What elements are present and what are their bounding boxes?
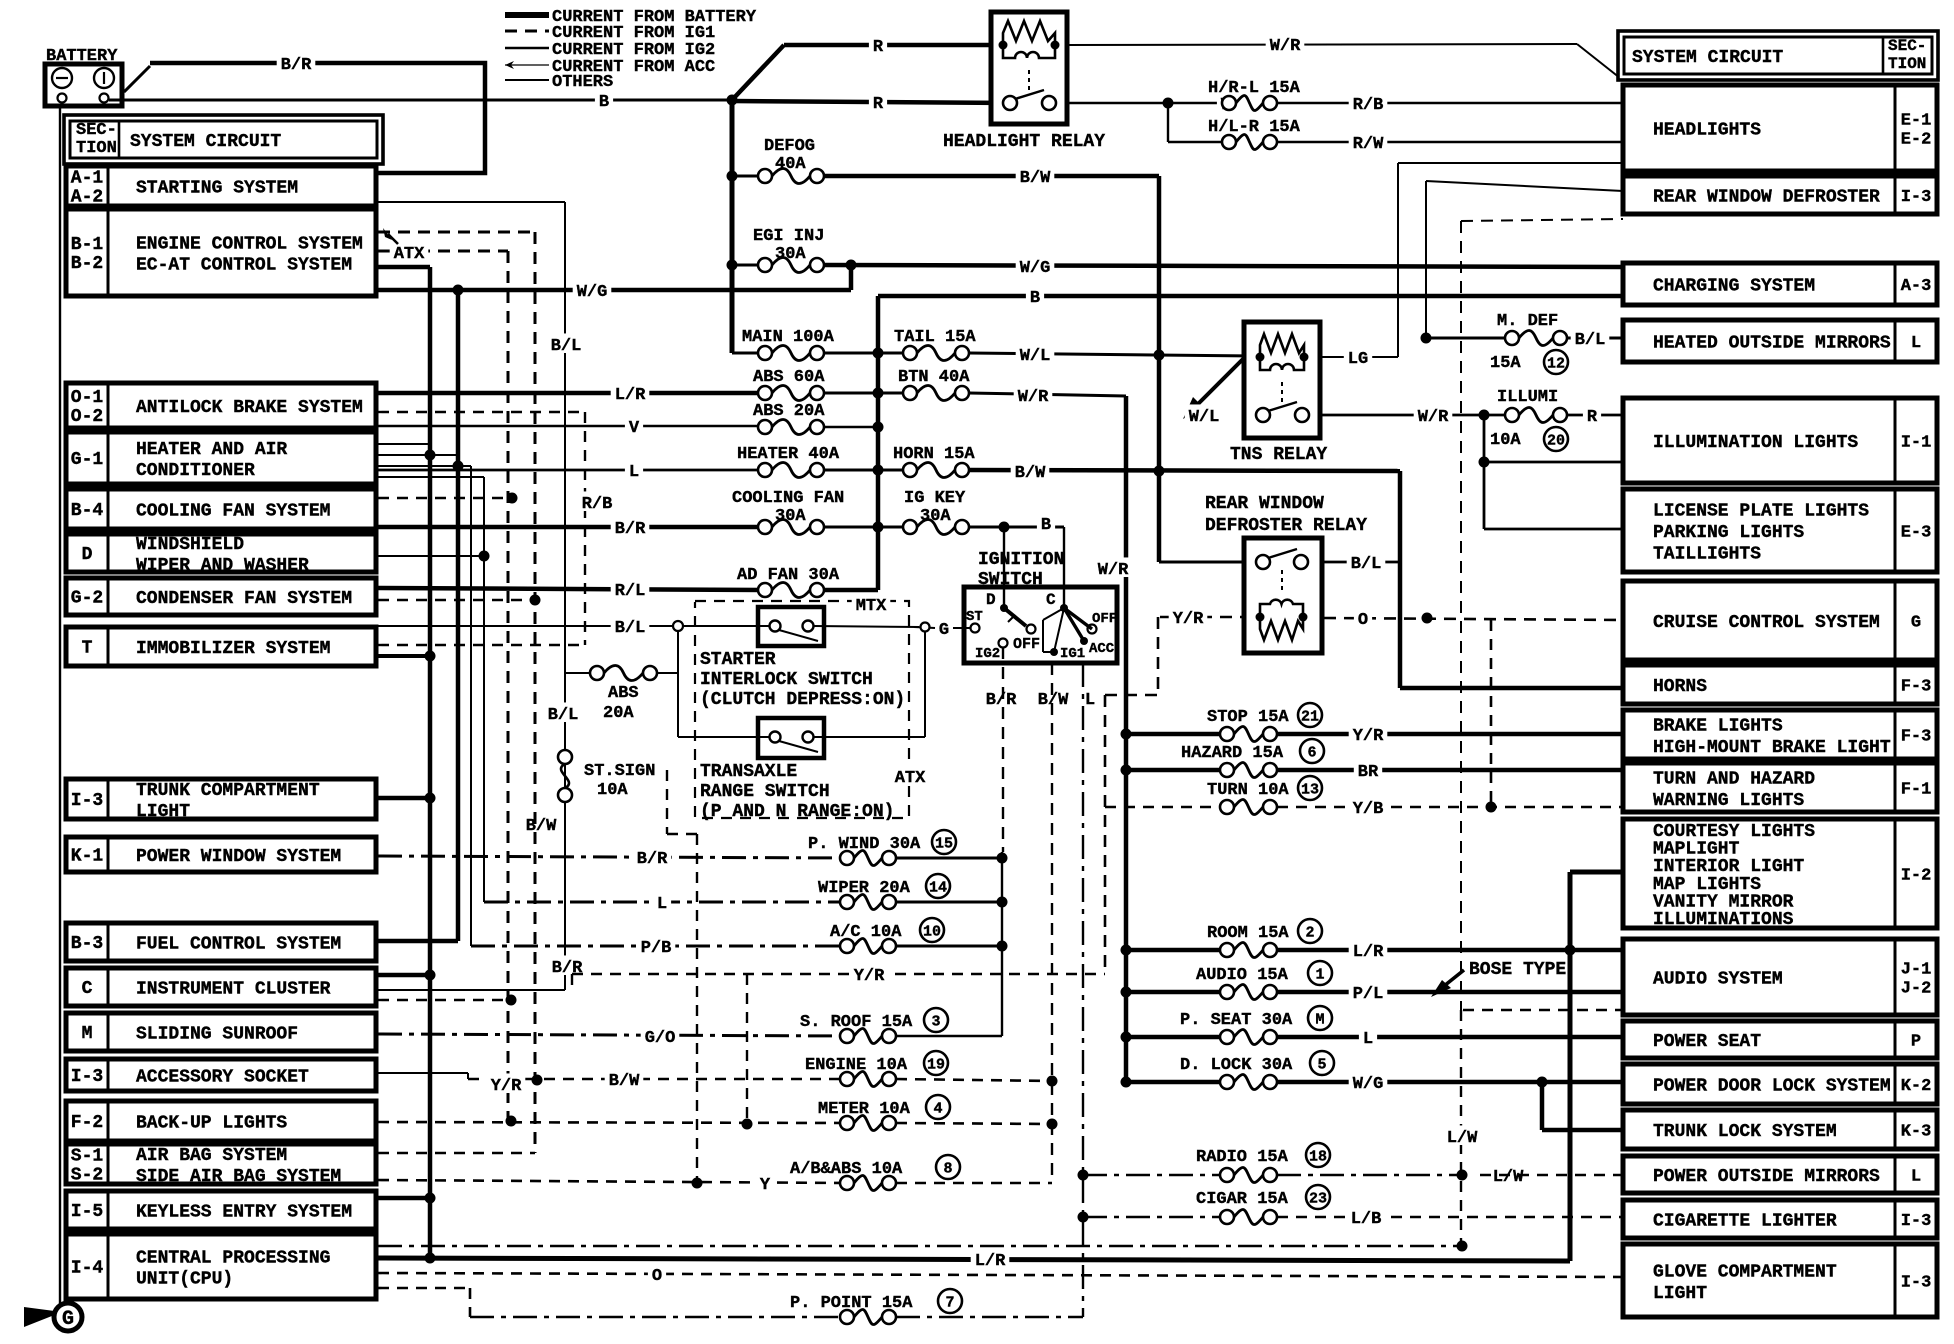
svg-text:B/L: B/L [548,706,579,725]
svg-text:ABS 20A: ABS 20A [753,402,825,421]
svg-text:L/R: L/R [615,386,646,405]
svg-text:WINDSHIELD: WINDSHIELD [136,535,244,555]
svg-text:REAR WINDOW: REAR WINDOW [1205,494,1324,514]
svg-text:15A: 15A [1490,354,1521,373]
svg-text:B/L: B/L [551,337,582,356]
svg-text:KEYLESS ENTRY SYSTEM: KEYLESS ENTRY SYSTEM [136,1203,352,1223]
svg-text:L/W: L/W [1493,1168,1524,1187]
svg-text:IGNITION: IGNITION [978,550,1064,570]
svg-text:SYSTEM CIRCUIT: SYSTEM CIRCUIT [1632,48,1783,68]
svg-text:BRAKE LIGHTS: BRAKE LIGHTS [1653,716,1783,736]
svg-text:ST: ST [966,609,983,625]
svg-text:ACCESSORY SOCKET: ACCESSORY SOCKET [136,1068,309,1088]
svg-text:Y: Y [760,1176,771,1195]
svg-text:OFF: OFF [1013,636,1040,653]
svg-text:P/B: P/B [641,939,672,958]
svg-text:L/W: L/W [1447,1129,1478,1148]
svg-text:B/R: B/R [552,959,583,978]
svg-text:AUDIO 15A: AUDIO 15A [1196,966,1289,985]
svg-text:ACC: ACC [1089,641,1115,657]
svg-text:UNIT(CPU): UNIT(CPU) [136,1270,233,1290]
svg-text:TION: TION [76,139,117,158]
svg-text:P/L: P/L [1353,985,1384,1004]
svg-text:14: 14 [929,880,947,897]
svg-text:30A: 30A [775,245,806,264]
svg-text:W/R: W/R [1018,388,1049,407]
svg-text:M. DEF: M. DEF [1497,312,1558,331]
svg-text:CONDENSER FAN SYSTEM: CONDENSER FAN SYSTEM [136,589,352,609]
svg-text:TRUNK LOCK SYSTEM: TRUNK LOCK SYSTEM [1653,1122,1837,1142]
svg-text:POWER OUTSIDE MIRRORS: POWER OUTSIDE MIRRORS [1653,1167,1880,1187]
svg-text:19: 19 [927,1057,945,1074]
svg-text:4: 4 [933,1101,942,1118]
svg-text:B/L: B/L [615,619,646,638]
svg-text:IG2: IG2 [975,646,1000,662]
svg-text:K-1: K-1 [71,847,104,867]
svg-text:TRANSAXLE: TRANSAXLE [700,762,797,782]
svg-text:INTERLOCK SWITCH: INTERLOCK SWITCH [700,670,873,690]
svg-text:CIGARETTE LIGHTER: CIGARETTE LIGHTER [1653,1212,1837,1232]
svg-text:3: 3 [931,1014,940,1031]
svg-text:G/O: G/O [645,1029,676,1048]
svg-text:D. LOCK 30A: D. LOCK 30A [1180,1056,1293,1075]
svg-text:G-2: G-2 [71,589,103,609]
svg-text:PARKING LIGHTS: PARKING LIGHTS [1653,523,1804,543]
svg-text:IG1: IG1 [1060,646,1085,662]
svg-text:O-2: O-2 [71,407,103,427]
svg-text:WIPER AND WASHER: WIPER AND WASHER [136,556,309,576]
svg-text:ABS: ABS [608,684,639,703]
svg-text:5: 5 [1317,1057,1326,1074]
svg-text:C: C [82,979,93,999]
svg-text:COOLING FAN SYSTEM: COOLING FAN SYSTEM [136,502,330,522]
svg-text:L: L [1363,1030,1373,1049]
svg-text:T: T [82,639,93,659]
svg-text:ILLUMI: ILLUMI [1497,388,1558,407]
svg-text:P. SEAT 30A: P. SEAT 30A [1180,1011,1293,1030]
svg-text:SEC-: SEC- [1888,37,1926,55]
svg-text:G: G [62,1308,74,1331]
svg-text:O: O [1358,611,1368,630]
svg-text:A-2: A-2 [71,188,103,208]
svg-text:W/R: W/R [1418,408,1449,427]
svg-text:G: G [939,621,949,640]
svg-text:20A: 20A [603,704,634,723]
svg-text:40A: 40A [775,155,806,174]
svg-text:A-3: A-3 [1901,277,1932,296]
svg-text:OTHERS: OTHERS [552,73,613,92]
svg-text:COOLING FAN: COOLING FAN [732,489,844,508]
svg-text:IMMOBILIZER SYSTEM: IMMOBILIZER SYSTEM [136,639,330,659]
svg-text:CRUISE CONTROL SYSTEM: CRUISE CONTROL SYSTEM [1653,613,1880,633]
svg-text:H/R-L 15A: H/R-L 15A [1208,79,1301,98]
svg-text:G: G [1911,614,1921,633]
svg-text:B/W: B/W [609,1072,640,1091]
svg-text:12: 12 [1547,356,1565,373]
svg-text:B-4: B-4 [71,501,104,521]
svg-text:L: L [629,463,639,482]
svg-text:HEATER AND AIR: HEATER AND AIR [136,440,287,460]
svg-text:I-3: I-3 [71,791,103,811]
svg-text:B/W: B/W [526,817,557,836]
svg-text:HAZARD 15A: HAZARD 15A [1181,744,1284,763]
svg-text:I-1: I-1 [1901,434,1932,453]
svg-text:20: 20 [1547,433,1565,450]
svg-text:POWER SEAT: POWER SEAT [1653,1032,1761,1052]
svg-text:ATX: ATX [895,769,926,788]
svg-text:H/L-R 15A: H/L-R 15A [1208,118,1301,137]
svg-text:HEATED OUTSIDE MIRRORS: HEATED OUTSIDE MIRRORS [1653,334,1891,354]
svg-text:B-1: B-1 [71,235,104,255]
svg-text:R: R [873,95,884,114]
svg-text:LIGHT: LIGHT [1653,1284,1707,1304]
svg-text:F-3: F-3 [1901,678,1932,697]
svg-text:FUEL CONTROL SYSTEM: FUEL CONTROL SYSTEM [136,935,341,955]
svg-text:RADIO 15A: RADIO 15A [1196,1148,1289,1167]
svg-text:HEATER 40A: HEATER 40A [737,445,840,464]
svg-text:ANTILOCK BRAKE SYSTEM: ANTILOCK BRAKE SYSTEM [136,398,363,418]
svg-text:I-3: I-3 [1901,1212,1932,1231]
svg-text:TRUNK COMPARTMENT: TRUNK COMPARTMENT [136,781,320,801]
svg-text:R/B: R/B [582,495,613,514]
svg-text:TNS RELAY: TNS RELAY [1230,445,1327,465]
svg-text:K-2: K-2 [1901,1077,1932,1096]
svg-text:LG: LG [1348,350,1368,369]
svg-text:AD FAN 30A: AD FAN 30A [737,566,840,585]
svg-text:CHARGING SYSTEM: CHARGING SYSTEM [1653,277,1815,297]
svg-text:13: 13 [1301,782,1319,799]
svg-text:I-3: I-3 [1901,1274,1932,1293]
svg-text:ROOM 15A: ROOM 15A [1207,924,1289,943]
svg-text:P: P [1911,1033,1921,1052]
svg-text:I-3: I-3 [71,1067,103,1087]
svg-text:D: D [986,591,996,609]
svg-text:AUDIO SYSTEM: AUDIO SYSTEM [1653,970,1783,990]
svg-text:GLOVE COMPARTMENT: GLOVE COMPARTMENT [1653,1262,1837,1282]
svg-text:23: 23 [1309,1191,1327,1208]
svg-text:ENGINE CONTROL SYSTEM: ENGINE CONTROL SYSTEM [136,235,363,255]
svg-text:S-1: S-1 [71,1147,104,1167]
svg-text:L/R: L/R [1353,943,1384,962]
svg-text:TION: TION [1888,55,1926,73]
svg-text:CONDITIONER: CONDITIONER [136,461,255,481]
svg-text:B-3: B-3 [71,934,103,954]
svg-text:B: B [599,93,609,112]
svg-text:G-1: G-1 [71,450,104,470]
svg-text:F-3: F-3 [1901,728,1932,747]
svg-text:BTN 40A: BTN 40A [898,368,970,387]
svg-text:A-1: A-1 [71,169,104,189]
svg-text:B/W: B/W [1015,464,1046,483]
svg-text:W/L: W/L [1020,347,1051,366]
svg-text:WARNING LIGHTS: WARNING LIGHTS [1653,791,1804,811]
svg-text:L: L [657,895,667,914]
svg-text:B/L: B/L [1351,555,1382,574]
svg-text:SEC-: SEC- [76,121,117,140]
svg-text:AIR BAG SYSTEM: AIR BAG SYSTEM [136,1146,287,1166]
svg-text:BOSE TYPE: BOSE TYPE [1469,960,1566,980]
svg-text:ILLUMINATIONS: ILLUMINATIONS [1653,910,1794,930]
svg-text:SWITCH: SWITCH [978,570,1043,590]
svg-text:HORN 15A: HORN 15A [893,445,975,464]
svg-text:L/B: L/B [1351,1210,1382,1229]
svg-text:M: M [1315,1012,1324,1029]
svg-text:SIDE AIR BAG SYSTEM: SIDE AIR BAG SYSTEM [136,1167,341,1187]
svg-text:W/R: W/R [1098,561,1129,580]
svg-text:DEFROSTER RELAY: DEFROSTER RELAY [1205,516,1367,536]
svg-text:W/L: W/L [1189,408,1220,427]
svg-text:O: O [652,1267,662,1286]
svg-text:HORNS: HORNS [1653,677,1707,697]
svg-text:2: 2 [1305,925,1314,942]
svg-text:1: 1 [1315,967,1324,984]
svg-text:SLIDING SUNROOF: SLIDING SUNROOF [136,1025,298,1045]
svg-text:Y/R: Y/R [1173,610,1204,629]
svg-text:HEADLIGHTS: HEADLIGHTS [1653,121,1761,141]
svg-text:DEFOG: DEFOG [764,137,815,156]
svg-text:W/R: W/R [1270,37,1301,56]
svg-text:21: 21 [1301,709,1319,726]
svg-text:TURN AND HAZARD: TURN AND HAZARD [1653,769,1815,789]
svg-text:L/R: L/R [975,1252,1006,1271]
svg-text:S-2: S-2 [71,1166,103,1186]
svg-text:ILLUMINATION LIGHTS: ILLUMINATION LIGHTS [1653,433,1858,453]
svg-text:STARTING SYSTEM: STARTING SYSTEM [136,179,298,199]
svg-text:J-1: J-1 [1901,961,1932,980]
svg-text:J-2: J-2 [1901,980,1932,999]
svg-text:W/G: W/G [1353,1075,1384,1094]
svg-text:STOP 15A: STOP 15A [1207,708,1289,727]
svg-text:ATX: ATX [394,245,425,264]
svg-text:EGI INJ: EGI INJ [753,227,824,246]
svg-text:10: 10 [923,924,941,941]
svg-text:S. ROOF 15A: S. ROOF 15A [800,1013,913,1032]
svg-text:I-5: I-5 [71,1202,103,1222]
svg-text:O-1: O-1 [71,388,104,408]
svg-text:R/B: R/B [1353,96,1384,115]
svg-text:L: L [1911,1168,1921,1187]
svg-text:R/W: R/W [1353,135,1384,154]
svg-text:(CLUTCH DEPRESS:ON): (CLUTCH DEPRESS:ON) [700,690,905,710]
svg-text:E-1: E-1 [1901,112,1932,131]
svg-text:CENTRAL PROCESSING: CENTRAL PROCESSING [136,1249,330,1269]
svg-text:B-2: B-2 [71,254,103,274]
svg-text:Y/R: Y/R [854,967,885,986]
svg-text:30A: 30A [920,507,951,526]
svg-text:E-3: E-3 [1901,524,1932,543]
svg-text:30A: 30A [775,507,806,526]
svg-text:M: M [82,1024,93,1044]
svg-text:HIGH-MOUNT BRAKE LIGHT: HIGH-MOUNT BRAKE LIGHT [1653,738,1891,758]
svg-text:B/R: B/R [615,520,646,539]
svg-text:BATTERY: BATTERY [46,47,118,66]
svg-text:BACK-UP LIGHTS: BACK-UP LIGHTS [136,1114,287,1134]
svg-text:TAILLIGHTS: TAILLIGHTS [1653,545,1761,565]
svg-text:R/L: R/L [615,582,646,601]
svg-text:Y/B: Y/B [1353,800,1384,819]
svg-text:10A: 10A [1490,431,1521,450]
svg-text:POWER WINDOW SYSTEM: POWER WINDOW SYSTEM [136,847,341,867]
svg-text:LIGHT: LIGHT [136,802,190,822]
svg-text:B/L: B/L [1575,331,1606,350]
svg-text:ST.SIGN: ST.SIGN [584,762,655,781]
svg-text:I-4: I-4 [71,1259,104,1279]
svg-text:B/W: B/W [1038,691,1069,710]
svg-text:I-3: I-3 [1901,188,1932,207]
svg-text:10A: 10A [597,781,628,800]
svg-text:V: V [629,419,640,438]
svg-text:C: C [1046,591,1056,609]
svg-text:W/G: W/G [1020,259,1051,278]
svg-text:B/R: B/R [281,56,312,75]
svg-text:F-2: F-2 [71,1113,103,1133]
svg-text:8: 8 [943,1161,952,1178]
svg-text:R: R [873,38,884,57]
svg-text:W/G: W/G [577,283,608,302]
svg-text:REAR WINDOW DEFROSTER: REAR WINDOW DEFROSTER [1653,188,1880,208]
svg-text:B/R: B/R [986,691,1017,710]
svg-text:OFF: OFF [1092,611,1117,627]
svg-text:Y/R: Y/R [1353,727,1384,746]
svg-text:TAIL 15A: TAIL 15A [894,328,976,347]
svg-text:(P AND N RANGE:ON): (P AND N RANGE:ON) [700,802,894,822]
svg-text:6: 6 [1307,745,1316,762]
svg-text:BR: BR [1358,763,1379,782]
svg-text:I-2: I-2 [1901,867,1932,886]
svg-text:K-3: K-3 [1901,1123,1932,1142]
svg-text:L: L [1911,334,1921,353]
svg-text:TURN 10A: TURN 10A [1207,781,1289,800]
svg-text:Y/R: Y/R [491,1077,522,1096]
svg-text:SYSTEM CIRCUIT: SYSTEM CIRCUIT [130,132,281,152]
svg-text:INSTRUMENT CLUSTER: INSTRUMENT CLUSTER [136,980,331,1000]
svg-text:E-2: E-2 [1901,131,1932,150]
svg-text:D: D [82,545,93,565]
svg-text:HEADLIGHT RELAY: HEADLIGHT RELAY [943,132,1105,152]
svg-text:EC-AT CONTROL SYSTEM: EC-AT CONTROL SYSTEM [136,256,352,276]
svg-text:RANGE SWITCH: RANGE SWITCH [700,782,830,802]
svg-text:ABS 60A: ABS 60A [753,368,825,387]
svg-text:F-1: F-1 [1901,781,1932,800]
svg-text:POWER DOOR LOCK SYSTEM: POWER DOOR LOCK SYSTEM [1653,1077,1891,1097]
svg-text:B/W: B/W [1020,169,1051,188]
svg-text:B: B [1041,516,1051,535]
svg-text:IG KEY: IG KEY [904,489,966,508]
svg-text:18: 18 [1309,1149,1327,1166]
svg-text:STARTER: STARTER [700,650,776,670]
svg-text:CIGAR 15A: CIGAR 15A [1196,1190,1289,1209]
svg-text:MAIN 100A: MAIN 100A [742,328,835,347]
svg-text:15: 15 [935,836,953,853]
svg-text:LICENSE PLATE LIGHTS: LICENSE PLATE LIGHTS [1653,502,1869,522]
svg-text:B: B [1030,289,1040,308]
svg-text:L: L [1085,691,1095,710]
svg-text:7: 7 [945,1295,954,1312]
svg-text:R: R [1587,408,1598,427]
svg-text:MTX: MTX [856,597,887,616]
svg-text:B/R: B/R [637,850,668,869]
